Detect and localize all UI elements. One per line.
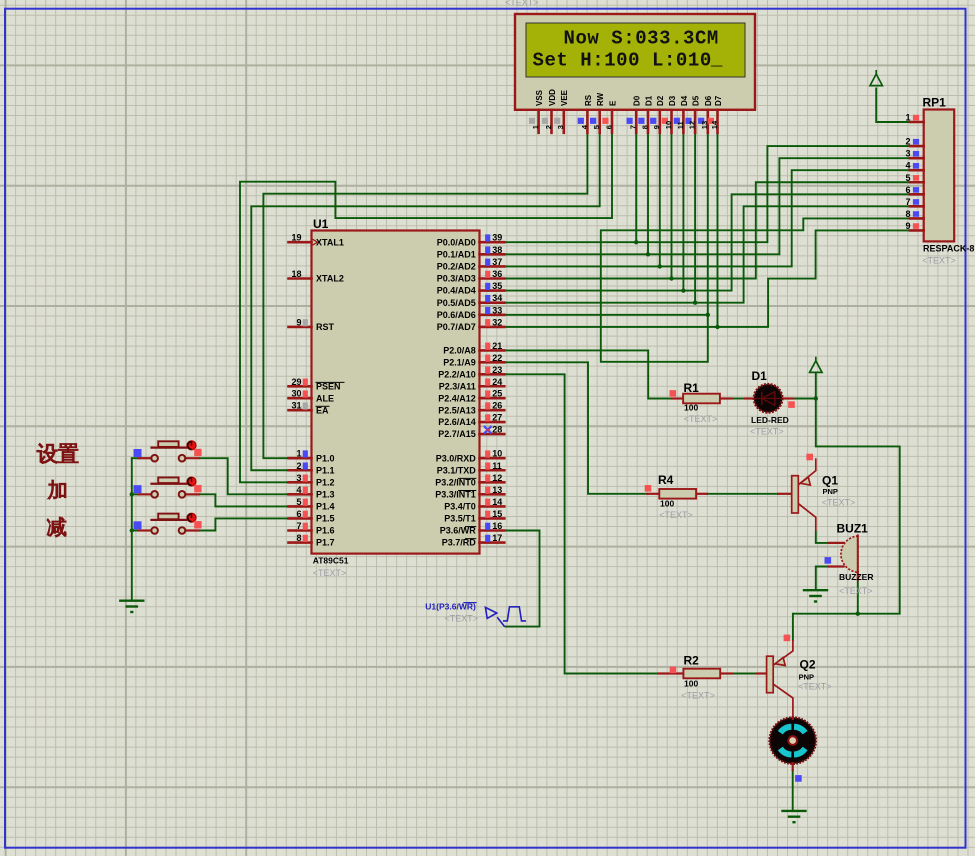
LCD pin 2 (VDD) [542,89,557,133]
svg-text:6: 6 [604,125,613,129]
U1 pin 4 (P1.3) [289,485,335,500]
svg-text:RS: RS [584,94,593,106]
resistor R4 100 [645,473,707,520]
junction [130,528,134,532]
resistor R1 100 [670,381,732,424]
ground (buzzer) [803,590,828,601]
svg-text:4: 4 [296,485,301,495]
wire RP1 pin1 to power [876,88,910,123]
svg-text:15: 15 [492,509,502,519]
svg-text:30: 30 [291,389,301,399]
wire D1 to power rail [793,398,816,400]
U1 pin 29 (PSEN) [289,377,345,392]
LCD pin 11 (D4) [674,95,689,133]
wire P0.4 to RP1 pin6 [504,194,910,290]
push button 3 [132,513,202,534]
svg-text:P1.2: P1.2 [316,477,335,487]
power symbol (D1 rail) [810,357,822,373]
svg-text:9: 9 [652,125,661,129]
svg-text:3: 3 [905,149,910,159]
wire button1 to P1.3 [199,458,289,494]
svg-text:D4: D4 [680,95,689,106]
svg-text:D2: D2 [656,95,665,106]
wire LCD D0 [635,133,637,242]
svg-text:24: 24 [492,377,502,387]
wire P0.2 to RP1 pin4 [504,170,910,266]
svg-text:D7: D7 [714,95,723,106]
RP1 pin 8 [905,209,923,219]
svg-text:D6: D6 [704,95,713,106]
junction [693,301,697,305]
LCD pin 8 (D1) [638,95,653,133]
svg-text:<TEXT>: <TEXT> [313,568,347,578]
svg-text:10: 10 [492,449,502,459]
U1 pin 18 (XTAL2) [289,269,344,284]
svg-text:38: 38 [492,245,502,255]
LCD pin 5 (RW) [590,92,605,132]
U1 pin 39 (P0.0/AD0) [437,233,505,248]
svg-text:D1: D1 [752,369,768,383]
svg-text:Now S:033.3CM: Now S:033.3CM [564,28,719,50]
wire P0.7 row to RP1 pin9 [504,230,910,326]
RP1 pin 2 [905,137,923,147]
svg-text:12: 12 [492,473,502,483]
svg-text:D1: D1 [644,95,653,106]
U1 pin 12 (P3.2/INT0) [435,473,504,488]
svg-text:P2.5/A13: P2.5/A13 [438,405,476,415]
U1 pin 10 (P3.0/RXD) [436,449,505,464]
U1 pin 2 (P1.1) [289,461,335,476]
wire R1 to D1 [732,398,745,400]
U1 pin 35 (P0.4/AD4) [437,281,505,296]
U1 pin 37 (P0.2/AD2) [437,257,505,272]
wire buzzer to rail [857,580,859,614]
U1 pin 22 (P2.1/A9) [443,353,504,368]
RP1 pin 1 [905,113,923,123]
U1 pin 17 (P3.7/RD) [442,533,505,548]
wire P0.1 to RP1 pin3 [504,158,910,254]
svg-text:37: 37 [492,257,502,267]
svg-text:5: 5 [296,497,301,507]
svg-text:P0.0/AD0: P0.0/AD0 [437,237,476,247]
svg-text:E: E [608,100,617,106]
svg-text:6: 6 [905,185,910,195]
wire button bus to ground [131,458,133,601]
svg-text:P1.4: P1.4 [316,502,335,512]
wire LCD RS to P1.0 [263,133,587,458]
svg-text:P0.1/AD1: P0.1/AD1 [437,249,476,259]
svg-text:31: 31 [291,401,301,411]
LCD module LM016L [515,14,755,110]
svg-text:Set H:100 L:010: Set H:100 L:010 [533,50,712,72]
svg-text:P0.4/AD4: P0.4/AD4 [437,286,476,296]
svg-text:P3.5/T1: P3.5/T1 [444,514,476,524]
LCD pin 4 (RS) [578,94,593,133]
svg-text:9: 9 [905,221,910,231]
U1 pin 36 (P0.3/AD3) [437,269,505,284]
svg-text:P1.5: P1.5 [316,514,335,524]
svg-text:23: 23 [492,365,502,375]
U1 pin 7 (P1.6) [289,521,335,536]
U1 pin 31 (EA) [289,401,330,416]
LCD pin 13 (D6) [698,95,713,133]
svg-text:<TEXT>: <TEXT> [659,510,693,520]
wire LCD E to P1.2 [240,133,612,483]
svg-text:8: 8 [296,533,301,543]
svg-text:17: 17 [492,533,502,543]
wire R2 to Q2 base [732,673,757,675]
U1 pin 1 (P1.0) [289,449,335,464]
svg-text:<TEXT>: <TEXT> [839,586,873,596]
wire buzzer to ground [816,567,829,591]
svg-text:<TEXT>: <TEXT> [445,614,479,624]
svg-text:8: 8 [905,209,910,219]
svg-text:VEE: VEE [560,89,569,106]
wire Q1 collector to buzzer [816,531,829,543]
svg-text:1: 1 [905,113,910,123]
U1 pin 9 (RST) [289,317,335,332]
junction [646,252,650,256]
svg-text:P0.6/AD6: P0.6/AD6 [437,310,476,320]
svg-text:12: 12 [688,121,697,129]
wire LCD RW to P1.1 [251,133,599,470]
svg-text:2: 2 [296,461,301,471]
svg-text:100: 100 [684,403,698,413]
svg-text:39: 39 [492,233,502,243]
svg-text:D3: D3 [668,95,677,106]
svg-text:21: 21 [492,341,502,351]
buzzer BUZ1 [825,522,874,597]
svg-text:R1: R1 [684,381,700,395]
svg-text:R4: R4 [658,473,674,487]
svg-text:10: 10 [664,121,673,129]
wire power rail / VCC net [793,373,900,614]
junction [856,612,860,616]
svg-text:1: 1 [531,125,540,129]
svg-text:5: 5 [905,173,910,183]
power symbol (RP1) [870,70,882,86]
label 设置 [37,443,57,463]
svg-text:U1: U1 [313,217,329,231]
wire P0.0 to RP1 pin2 [504,146,910,242]
svg-text:<TEXT>: <TEXT> [922,256,956,266]
svg-text:Q1: Q1 [822,474,838,488]
svg-text:RW: RW [596,92,605,106]
U1 pin 13 (P3.3/INT1) [435,485,504,500]
svg-text:32: 32 [492,317,502,327]
U1 pin 19 (XTAL1) [289,233,344,248]
svg-text:9: 9 [296,317,301,327]
svg-text:P2.6/A14: P2.6/A14 [438,417,476,427]
transistor Q2 PNP [757,635,832,718]
svg-text:100: 100 [684,679,698,689]
wire Q2 emitter drop [792,614,794,640]
label 加 [48,480,66,499]
svg-text:14: 14 [492,497,502,507]
U1 pin 26 (P2.5/A13) [438,401,504,416]
svg-text:33: 33 [492,305,502,315]
wire P0.6 row [504,314,708,316]
svg-text:22: 22 [492,353,502,363]
wire P2.0 to R1 [504,350,672,398]
svg-text:P2.7/A15: P2.7/A15 [438,429,476,439]
U1 pin 33 (P0.6/AD6) [437,305,505,320]
svg-text:XTAL1: XTAL1 [316,237,344,247]
svg-text:RESPACK-8: RESPACK-8 [923,244,974,254]
junction [669,276,673,280]
label 减 [47,517,66,537]
wire LCD D3 [671,133,673,279]
svg-text:35: 35 [492,281,502,291]
U1 pin 3 (P1.2) [289,473,335,488]
svg-text:P0.2/AD2: P0.2/AD2 [437,262,476,272]
wire R4 to Q1 base [707,493,779,495]
svg-text:P1.1: P1.1 [316,465,335,475]
junction [130,492,134,496]
motor (DC motor) [770,717,816,782]
wire P2.1 to R4 [504,362,647,493]
svg-text:27: 27 [492,413,502,423]
U1 pin 24 (P2.3/A11) [439,377,505,392]
U1 pin 11 (P3.1/TXD) [437,461,505,476]
svg-text:6: 6 [296,509,301,519]
svg-text:BUZZER: BUZZER [839,572,873,582]
svg-text:VSS: VSS [535,89,544,106]
RP1 pin 3 [905,149,923,159]
svg-text:P2.2/A10: P2.2/A10 [438,369,476,379]
LCD pin 1 (VSS) [529,89,544,132]
wire LCD D1 [647,133,649,255]
U1 pin 32 (P0.7/AD7) [437,317,505,332]
RP1 pin 5 [905,173,923,183]
wire button3 to P1.5 [199,518,289,530]
wire P0.3 to RP1 pin5 [504,182,910,278]
resistor R2 100 [659,654,732,701]
ground (buttons) [119,601,144,612]
svg-text:PNP: PNP [823,487,838,496]
push button 1 [132,441,202,462]
wire P2.2 to R2 [504,374,659,673]
svg-text:2: 2 [905,137,910,147]
RP1 pin 6 [905,185,923,195]
wire LCD D2 [659,133,661,267]
transistor Q1 PNP [779,454,856,531]
ground (motor) [781,811,806,822]
svg-text:8: 8 [640,125,649,129]
svg-text:19: 19 [291,233,301,243]
svg-text:26: 26 [492,401,502,411]
svg-text:P0.3/AD3: P0.3/AD3 [437,274,476,284]
svg-text:4: 4 [905,161,910,171]
svg-text:11: 11 [492,461,502,471]
pulse generator U1(P3.6/WR) [425,602,526,627]
RP1 pin 4 [905,161,923,171]
U1 pin 38 (P0.1/AD1) [437,245,505,260]
U1 pin 28 (P2.7/A15) [438,425,504,440]
U1 pin 30 (ALE) [289,389,335,404]
IC U1 AT89C51 [312,217,480,578]
svg-text:ALE: ALE [316,393,334,403]
U1 pin 34 (P0.5/AD5) [437,293,505,308]
svg-text:7: 7 [296,521,301,531]
LCD pin 14 (D7) [708,95,723,133]
svg-text:28: 28 [492,425,502,435]
svg-text:<TEXT>: <TEXT> [750,427,784,437]
svg-text:Q2: Q2 [800,658,816,672]
U1 pin 16 (P3.6/WR) [440,521,505,536]
svg-text:13: 13 [492,485,502,495]
svg-text:P1.7: P1.7 [316,538,335,548]
LCD pin 6 (E) [602,100,617,133]
junction [681,288,685,292]
svg-text:VDD: VDD [548,89,557,106]
svg-text:3: 3 [556,125,565,129]
U1 pin 27 (P2.6/A14) [438,413,504,428]
svg-text:P2.1/A9: P2.1/A9 [443,357,476,367]
svg-text:P0.5/AD5: P0.5/AD5 [437,298,476,308]
svg-text:AT89C51: AT89C51 [313,556,349,566]
svg-text:36: 36 [492,269,502,279]
svg-text:P3.1/TXD: P3.1/TXD [437,465,477,475]
LCD pin 3 (VEE) [554,89,569,132]
svg-text:<TEXT>: <TEXT> [505,0,539,8]
U1 pin 5 (P1.4) [289,497,335,512]
U1 pin 23 (P2.2/A10) [438,365,504,380]
svg-text:16: 16 [492,521,502,531]
svg-text:P2.0/A8: P2.0/A8 [443,346,476,356]
wire LCD D7 [717,133,719,327]
svg-text:<TEXT>: <TEXT> [684,414,718,424]
svg-text:_: _ [710,49,723,71]
wire LCD D6 / P0.6 to RP1 pin8 [601,133,910,362]
LED D1 LED-RED [745,369,795,437]
wire P0.5 to RP1 pin7 [504,206,910,302]
junction [814,396,818,400]
svg-text:<TEXT>: <TEXT> [822,498,856,508]
junction [658,264,662,268]
svg-text:BUZ1: BUZ1 [837,522,869,536]
svg-text:100: 100 [660,499,674,509]
svg-text:RP1: RP1 [923,96,947,110]
wire LCD D4 [682,133,684,291]
svg-text:29: 29 [291,377,301,387]
U1 pin 15 (P3.5/T1) [444,509,504,524]
LCD pin 12 (D5) [685,95,700,133]
svg-text:34: 34 [492,293,502,303]
junction [715,325,719,329]
U1 pin 8 (P1.7) [289,533,335,548]
svg-text:D5: D5 [692,95,701,106]
wire LCD D5 [694,133,696,303]
svg-text:P0.7/AD7: P0.7/AD7 [437,322,476,332]
svg-text:P1.0: P1.0 [316,453,335,463]
U1 pin 14 (P3.4/T0) [444,497,504,512]
svg-text:<TEXT>: <TEXT> [798,682,832,692]
U1 pin 25 (P2.4/A12) [438,389,504,404]
svg-text:PNP: PNP [799,673,814,682]
svg-text:<TEXT>: <TEXT> [681,691,715,701]
wire motor to ground [792,770,794,811]
U1 pin 6 (P1.5) [289,509,335,524]
junction [634,240,638,244]
svg-text:RST: RST [316,322,335,332]
svg-text:R2: R2 [684,654,700,668]
svg-text:XTAL2: XTAL2 [316,274,344,284]
U1 pin 21 (P2.0/A8) [443,341,504,356]
svg-text:7: 7 [905,197,910,207]
svg-text:2: 2 [544,125,553,129]
RP1 pin 9 [905,221,923,231]
svg-text:14: 14 [710,120,719,129]
svg-text:3: 3 [296,473,301,483]
LCD pin 10 (D3) [662,95,677,133]
LCD pin 7 (D0) [627,95,642,133]
svg-text:P1.6: P1.6 [316,526,335,536]
junction [706,313,710,317]
LCD pin 9 (D2) [650,95,665,133]
svg-text:LED-RED: LED-RED [751,415,789,425]
RP1 pin 7 [905,197,923,207]
svg-text:P3.4/T0: P3.4/T0 [444,502,476,512]
wire button2 to P1.4 [199,494,289,506]
svg-text:P2.4/A12: P2.4/A12 [438,393,476,403]
svg-text:P1.3: P1.3 [316,489,335,499]
svg-text:25: 25 [492,389,502,399]
svg-text:1: 1 [296,449,301,459]
svg-text:D0: D0 [633,95,642,106]
resistor pack RP1 RESPACK-8 [922,96,974,266]
wire P3.6 to pulse source [504,531,539,627]
svg-text:P2.3/A11: P2.3/A11 [439,381,476,391]
push button 2 [132,477,202,498]
svg-text:11: 11 [676,121,685,129]
svg-text:7: 7 [629,125,638,129]
svg-text:5: 5 [592,125,601,129]
svg-text:P3.0/RXD: P3.0/RXD [436,453,477,463]
svg-text:18: 18 [291,269,301,279]
